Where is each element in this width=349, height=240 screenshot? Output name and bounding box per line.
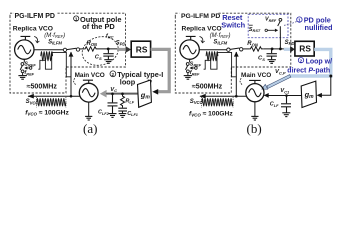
main VCO oscillator (a) (79, 80, 98, 102)
svg-text:fRC: fRC (106, 33, 114, 39)
capacitor C_S (b) (267, 49, 277, 60)
terminal: V_REF (b) (279, 18, 282, 21)
svg-text:RS: RS (299, 44, 311, 54)
switch S_REF (a) (20, 63, 24, 73)
arrowhead: S_VCO direction (b) (200, 94, 206, 99)
svg-text:CLF2: CLF2 (98, 110, 110, 116)
svg-text:(M·fREF): (M·fREF) (210, 33, 231, 39)
block RS (a) (131, 41, 150, 57)
sampling switch (a) (63, 48, 79, 52)
annotation marker 1 (a) (74, 16, 79, 22)
svg-text:1: 1 (75, 17, 78, 22)
svg-text:Main VCO: Main VCO (241, 72, 271, 79)
arrowhead into RS (a) (126, 46, 131, 53)
svg-text:1: 1 (298, 18, 301, 23)
svg-text:(M·fREF): (M·fREF) (44, 33, 65, 39)
pointer arrow to main VCO (a) (74, 78, 76, 85)
arrowhead into gm (b) (317, 93, 322, 98)
svg-text:CS: CS (258, 56, 265, 62)
wire: replica VCO to sampling switch (a) (34, 49, 63, 51)
svg-text:≈500MHz: ≈500MHz (192, 83, 223, 91)
wire: switch to R_ON (a) (80, 48, 85, 50)
node: S_VCO junction (b) (235, 95, 238, 98)
svg-text:Switch: Switch (221, 20, 245, 29)
svg-text:fVCO ≈ 100GHz: fVCO ≈ 100GHz (189, 110, 233, 117)
arrowhead: into main VCO gray (a) (100, 90, 107, 98)
arrowhead: into sampling switch (b) (234, 52, 239, 57)
svg-text:nullified: nullified (305, 23, 333, 32)
waveform: S_ILFM gated burst (a) (41, 52, 53, 61)
node: reset junction (b) (279, 48, 282, 51)
wire: replica VCO to S_REF switch (b) (189, 59, 191, 62)
wire: branch to gm (b) (318, 76, 330, 95)
marker: burst window dotted lines (b) (202, 97, 234, 107)
control arrow: S_REF (a) (24, 66, 32, 69)
svg-text:VC,P: VC,P (275, 69, 286, 75)
waveform: S_VCO burst (b) (202, 98, 233, 106)
node: P-path branch (b) (329, 75, 332, 78)
arrowhead into gm (a) (152, 89, 158, 95)
node: S_PD (a) (107, 48, 110, 51)
svg-text:PG-ILFM PD: PG-ILFM PD (181, 13, 220, 20)
pointer arrow to replica VCO (a) (34, 36, 39, 42)
svg-text:VC: VC (110, 87, 117, 93)
svg-text:RON: RON (247, 41, 259, 47)
arrowhead: S_VCO direction (a) (28, 94, 34, 99)
svg-text:SREF: SREF (24, 61, 36, 67)
annotation marker 2 (a) (110, 71, 116, 77)
svg-text:SREF: SREF (190, 61, 202, 67)
annotation marker 1 (b) (297, 17, 302, 23)
svg-text:loop: loop (120, 78, 136, 87)
pointer arrow to replica VCO (b) (200, 36, 205, 42)
resistor R_LF (a) (121, 94, 125, 108)
pointer: marker 1 to node (b) (284, 22, 297, 26)
svg-text:SPD: SPD (116, 40, 126, 46)
svg-text:VC1: VC1 (280, 88, 290, 94)
svg-text:SILFM: SILFM (213, 39, 227, 45)
svg-text:CLF: CLF (270, 102, 279, 108)
capacitor C_LF1 (a) (118, 108, 127, 113)
wire: S_VCO line (a) (28, 95, 80, 97)
sampling switch (b) (227, 48, 243, 52)
wire: R_ON to S_PD node (a) (98, 48, 117, 50)
ground: main VCO (a) (85, 116, 92, 120)
switch bar S_RST (b) (278, 21, 281, 26)
node: S_VCO junction (a) (70, 95, 73, 98)
capacitor C_LF (b) (281, 96, 291, 113)
svg-text:RS: RS (136, 44, 148, 54)
svg-text:RLF: RLF (125, 98, 134, 104)
svg-text:SPD: SPD (285, 40, 295, 46)
wire: RS feedback gray path (a) (151, 49, 170, 91)
svg-text:(b): (b) (247, 121, 262, 136)
svg-text:Replica VCO: Replica VCO (182, 25, 222, 32)
resistor R_ON (a) (84, 47, 98, 51)
node: V_C1 (b) (285, 94, 288, 97)
svg-text:of the PD: of the PD (82, 22, 115, 31)
wire: switch to R_ON (b) (243, 48, 250, 50)
wire: light blue start of P-path (b) (284, 48, 291, 51)
waveform: S_ILFM gated burst (b) (206, 52, 218, 61)
thin line over gray wire (a) (106, 93, 138, 95)
wire: reset switch to S_PD node (b) (279, 26, 281, 48)
wire: S_VCO to sampling switch (b) (235, 52, 237, 96)
resistor R_ON (b) (250, 47, 264, 51)
svg-text:direct P-path: direct P-path (287, 67, 330, 74)
amplifier gm (a) (138, 80, 152, 107)
PG-ILFM PD dashed box (a) (10, 13, 126, 93)
pointer arrow from loop label (a) (140, 80, 152, 85)
wire: direct P-path diagonal (b) (267, 75, 291, 89)
wire: R_ON to nodes (b) (263, 48, 284, 50)
node: V_C (a) (111, 93, 114, 96)
svg-text:2: 2 (300, 58, 303, 63)
wire: S_REF to ground (b) (187, 73, 189, 76)
wire: S_VCO to sampling switch (a) (70, 52, 72, 96)
arrowhead: V_CP into main VCO (b) (262, 84, 268, 89)
svg-text:fVCO ≈ 100GHz: fVCO ≈ 100GHz (25, 109, 69, 116)
ground: C_S (b) (268, 60, 276, 64)
svg-text:SRST: SRST (249, 27, 261, 33)
capacitor C_LF2 (a) (108, 94, 118, 114)
svg-text:≈500MHz: ≈500MHz (27, 83, 58, 91)
capacitor C_S (a) (103, 49, 113, 60)
marker: burst window dotted lines (a) (37, 97, 66, 107)
amplifier gm (b) (301, 81, 316, 107)
wire: RS output direct P-path light blue (b) (289, 49, 331, 76)
annotation marker 2 (b) (298, 58, 303, 64)
svg-text:CS: CS (95, 55, 102, 61)
wire: replica VCO to S_REF switch (a) (23, 59, 25, 62)
svg-text:VREF: VREF (265, 17, 277, 23)
arrowhead into RS (b) (290, 46, 295, 53)
main VCO oscillator (b) (246, 80, 264, 101)
ground: C_S (a) (104, 60, 112, 64)
svg-text:(a): (a) (83, 121, 97, 136)
waveform: gating pulse (a) (38, 52, 70, 76)
wire: S_VCO line (b) (200, 95, 246, 97)
control arrow: S_RST (b) (265, 29, 278, 32)
svg-text:Loop w/: Loop w/ (306, 59, 332, 66)
waveform: S_VCO burst (a) (37, 98, 66, 106)
ground: C_LF (b) (282, 113, 290, 117)
wire: replica VCO to sampling switch (b) (199, 49, 226, 51)
ground: C_LF2 (a) (109, 114, 117, 118)
ground: C_LF1 (a) (119, 114, 127, 118)
block RS (b) (295, 41, 314, 56)
replica VCO oscillator (b) (180, 36, 199, 59)
wire: main VCO to ground (b) (254, 102, 256, 116)
svg-text:PG-ILFM PD: PG-ILFM PD (15, 13, 55, 20)
svg-text:RON: RON (87, 41, 99, 47)
switch S_REF (b) (186, 63, 190, 73)
waveform: gating pulse (b) (204, 52, 236, 76)
arrowhead: into sampling switch (a) (69, 52, 74, 57)
wire: VCO control gray (a) (106, 92, 138, 95)
replica VCO oscillator (a) (15, 36, 34, 59)
svg-text:Replica VCO: Replica VCO (13, 25, 53, 32)
node: filter branch (a) (121, 93, 124, 96)
ground: main VCO (b) (251, 116, 258, 120)
svg-text:Main VCO: Main VCO (75, 72, 105, 79)
ground: f_REF (a) (18, 76, 26, 80)
control arrow: S_REF (b) (190, 66, 198, 69)
svg-text:SILFM: SILFM (48, 39, 62, 45)
dashed ellipse: output pole of the PD (a) (79, 33, 122, 70)
ground: f_REF (b) (184, 76, 192, 80)
svg-text:CLF1: CLF1 (127, 111, 138, 117)
wire: main VCO to ground (a) (88, 102, 90, 116)
svg-text:2: 2 (112, 72, 115, 77)
arrowhead: into main VCO (b) (264, 93, 269, 98)
PG-ILFM PD dashed box (b) (175, 13, 290, 93)
reset switch dashed box (b) (248, 14, 288, 37)
wire: VCO control thin (b) (265, 95, 302, 97)
wire: S_REF to ground (a) (22, 73, 24, 76)
wire: gray shaft into RS (a) (117, 48, 126, 51)
pointer arrow to main VCO (b) (240, 78, 242, 85)
node: C_S junction (b) (271, 48, 274, 51)
